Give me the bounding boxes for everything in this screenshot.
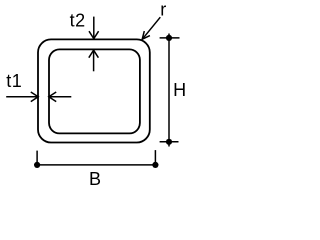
B dimension end dots <box>34 162 40 168</box>
svg-text:H: H <box>173 80 186 100</box>
H dimension end dots <box>166 35 172 41</box>
t1 left arrow (outside, pointing right at outer left wall) <box>6 92 38 102</box>
svg-text:B: B <box>89 169 101 189</box>
inner profile of hollow square section <box>49 49 140 133</box>
outer profile of hollow square section <box>38 39 150 142</box>
B dimension line <box>37 150 155 165</box>
svg-text:r: r <box>160 0 166 20</box>
svg-text:t2: t2 <box>70 11 86 31</box>
t1 right arrow (inside, pointing left at inner left wall) <box>49 92 72 102</box>
t2 up arrow (inside, pointing at inner top wall) <box>89 50 99 71</box>
H dimension line <box>160 34 180 147</box>
r leader arrow pointing to outer corner radius <box>142 17 160 39</box>
svg-text:t1: t1 <box>6 71 22 91</box>
t2 down arrow (outside, pointing at outer top wall) <box>89 17 99 39</box>
